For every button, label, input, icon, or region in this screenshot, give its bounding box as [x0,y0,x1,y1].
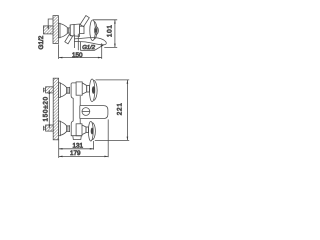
handle arm up-right (top view) [80,16,89,27]
dim 150±20 line [49,90,51,128]
lower inlet fitting [43,125,53,131]
lower handle wheel [88,121,95,141]
dim line 150 [59,57,102,59]
label G1/2 with leader (spout) [81,42,105,50]
shared left extension line [58,139,60,158]
svg-text:101: 101 [106,24,113,37]
svg-text:221: 221 [116,102,123,115]
svg-text:179: 179 [70,150,81,157]
lower escutcheon [59,121,70,136]
svg-text:G1/2: G1/2 [38,35,45,49]
handle rim ellipse (top view) [90,20,97,41]
bottom outlet [73,136,82,140]
neck (top view) [67,25,70,36]
inlet fitting (top view) [43,26,53,34]
svg-text:150±20: 150±20 [43,96,50,121]
upper inlet fitting [43,87,53,93]
spout (top view) [75,38,107,45]
leader arrow G1/2 (top) [47,19,52,30]
upper escutcheon [59,83,70,98]
valve block (top view) [70,24,84,36]
handle hub (top view) [94,27,98,34]
lower valve bonnet [76,124,89,136]
wall section (top view) [53,16,58,44]
svg-text:131: 131 [73,142,84,149]
svg-text:150: 150 [72,52,83,59]
upper valve bonnet [76,82,90,95]
dim line 221 [127,80,129,140]
dim 101 extension lines [93,20,117,48]
spout (front view, stadium) [80,106,108,119]
dim 221 extension lines [95,80,129,140]
spout root lines (top view) [74,34,78,50]
dim line 101 [114,20,116,48]
dim 179 [59,119,108,157]
dim 150 extension lines (top view) [59,43,102,59]
svg-text:G1/2: G1/2 [82,45,95,51]
handle arm down-left (top view) [65,34,73,43]
wall section (front view) [53,78,58,140]
body (front view) [71,83,82,136]
escutcheon flange (top view) [58,23,67,37]
upper handle wheel [89,79,97,102]
dim 131 [59,141,94,150]
diverter knob circle [82,108,90,116]
